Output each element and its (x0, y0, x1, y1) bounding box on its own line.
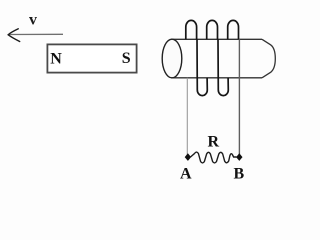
magnet bar (47, 44, 136, 72)
velocity arrowhead (8, 29, 20, 42)
velocity arrow shaft (9, 33, 63, 35)
wire lead to A (186, 78, 188, 155)
svg-text:N: N (50, 51, 62, 68)
coil turn 3 (228, 20, 239, 39)
node A (185, 153, 191, 161)
svg-text:R: R (208, 133, 220, 150)
solenoid core bottom line (171, 77, 262, 79)
wire lead to B (238, 39, 240, 155)
node B (236, 153, 242, 161)
resistor R zigzag (191, 152, 237, 163)
svg-text:v: v (29, 12, 37, 29)
svg-text:A: A (180, 165, 192, 182)
solenoid core right end cap (262, 39, 275, 78)
coil turn 1 (186, 20, 208, 95)
solenoid core left end ellipse (162, 39, 182, 78)
svg-text:S: S (122, 50, 131, 67)
solenoid core top line (171, 38, 262, 40)
svg-text:B: B (234, 165, 245, 182)
coil turn 2 (207, 20, 229, 95)
